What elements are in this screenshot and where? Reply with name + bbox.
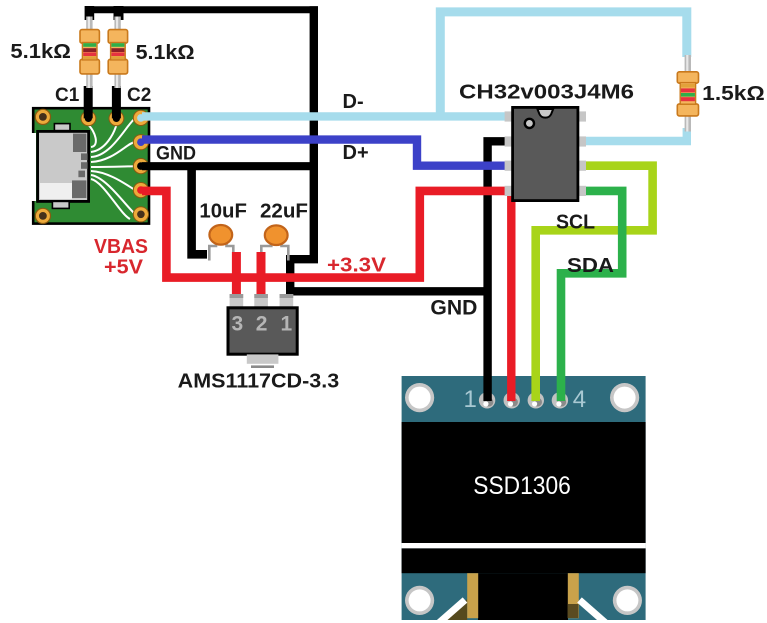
wire: +5V from USB pad to regulator input: [142, 191, 507, 278]
svg-text:C1: C1: [55, 85, 80, 106]
flex tan strip right: [568, 573, 579, 618]
pin 2 stub: [505, 136, 514, 146]
mounting hole bottom-right: [613, 586, 642, 615]
mounting hole bottom-left: [35, 208, 50, 223]
package body: [513, 107, 578, 200]
board corner cut right: [580, 600, 609, 623]
pad GND: [133, 159, 148, 174]
mounting hole top-left: [35, 109, 50, 124]
svg-text:+3.3V: +3.3V: [327, 255, 387, 277]
flex dark corner right: [568, 604, 579, 618]
PCB cutout left of connector: [27, 133, 36, 201]
board corner cut left: [437, 600, 466, 623]
wire: GND from USB pad: [142, 162, 317, 170]
wire: D+ from USB to U1 pin 3: [142, 140, 508, 166]
wire: R1 stub to rail: [85, 6, 95, 20]
svg-text:5.1kΩ: 5.1kΩ: [10, 41, 71, 63]
svg-text:VBAS: VBAS: [94, 236, 148, 258]
pin 1 hole: [479, 392, 495, 408]
capacitor C4 22uF: [261, 225, 288, 260]
pin 6 stub: [577, 161, 586, 171]
pad C2: [109, 111, 124, 126]
wire: R3 bottom back to U1 pin 7: [584, 128, 687, 141]
PCB substrate: [33, 108, 149, 223]
wire: GND branch to capacitor C3: [192, 166, 207, 254]
package body: [228, 308, 297, 354]
pad unused: [133, 207, 148, 222]
pin 1 notch: [537, 109, 553, 118]
flex dark corner left: [444, 599, 467, 620]
connector tab bottom: [52, 201, 69, 208]
wire: +3.3V down to OLED pin 2: [507, 191, 515, 401]
pin 4 hole: [552, 392, 568, 408]
wire: SCL from U1 pin 6 to OLED pin 3: [536, 166, 653, 401]
pad D+: [133, 135, 148, 150]
svg-text:GND: GND: [156, 143, 196, 165]
pin 4 stub: [505, 186, 514, 196]
svg-text:5.1kΩ: 5.1kΩ: [136, 42, 195, 64]
mounting hole top-right: [610, 383, 639, 412]
pad VBUS: [133, 183, 148, 198]
micro-USB connector shell: [38, 131, 89, 201]
flex cable area: [478, 573, 568, 620]
wire: D- branch up over to R3: [440, 12, 687, 117]
svg-text:D+: D+: [343, 142, 369, 164]
pad D-: [133, 110, 148, 125]
pin 1 dot: [525, 119, 534, 128]
pin 5 stub: [577, 186, 586, 196]
svg-text:CH32v003J4M6: CH32v003J4M6: [459, 82, 634, 104]
resistor R2 5.1k: [108, 17, 127, 89]
resistor R3 1.5k: [677, 55, 698, 132]
pin 3 hole: [528, 392, 544, 408]
regulator U2 AMS1117: [228, 294, 297, 368]
svg-text:1: 1: [281, 313, 293, 336]
PCB traces: [88, 118, 135, 219]
svg-text:SCL: SCL: [556, 212, 595, 234]
SSD1306 OLED module DS1: [402, 376, 646, 623]
svg-text:10uF: 10uF: [199, 200, 247, 222]
OLED display glass: [402, 422, 646, 543]
USB micro breakout board J1: [27, 108, 149, 223]
svg-text:1.5kΩ: 1.5kΩ: [702, 83, 765, 105]
wire: C2 resistor lead to pad: [112, 86, 121, 118]
capacitor C3 10uF: [209, 225, 233, 261]
pin 1 stub: [505, 111, 514, 121]
svg-text:22uF: 22uF: [260, 200, 308, 222]
display lower strip: [402, 548, 646, 573]
pad C1: [81, 111, 96, 126]
wire: D- from USB to U1 pin 1: [142, 112, 508, 120]
svg-text:GND: GND: [430, 297, 477, 320]
glass gap: [402, 543, 646, 548]
wire: regulator U2 pin 2 lead: [257, 252, 266, 297]
svg-text:1: 1: [464, 386, 477, 413]
svg-text:SDA: SDA: [567, 255, 614, 277]
wire: GND to U1 pin 2 and OLED pin 1: [488, 141, 507, 401]
resistor R1 5.1k: [80, 17, 99, 89]
svg-text:D-: D-: [343, 91, 364, 113]
svg-text:SSD1306: SSD1306: [473, 472, 571, 500]
mounting hole top-left: [405, 383, 434, 412]
wire: GND top rail from resistors: [85, 6, 318, 13]
svg-text:4: 4: [573, 386, 586, 413]
wire: regulator U2 pin 3 lead: [232, 252, 241, 297]
wire: SDA from U1 pin 5 to OLED pin 4: [561, 191, 622, 401]
MCU U1 CH32V003J4M6: [505, 107, 586, 200]
pin 1 stub: [280, 294, 294, 309]
mounting hole bottom-left: [405, 586, 434, 615]
pin 2 hole: [504, 392, 520, 408]
svg-text:+5V: +5V: [104, 257, 144, 279]
wire: R2 stub to rail: [114, 6, 124, 20]
pin 8 stub: [577, 111, 586, 121]
pin 3 stub: [505, 161, 514, 171]
package tab: [247, 354, 279, 363]
OLED PCB: [402, 376, 646, 620]
pin 3 stub: [230, 294, 244, 309]
wire: GND vertical down to GND net and capacitor C4: [290, 6, 487, 291]
svg-text:3: 3: [232, 313, 244, 336]
svg-text:C2: C2: [127, 85, 151, 106]
wire: C1 resistor lead to pad: [84, 86, 93, 118]
pin 7 stub: [577, 136, 586, 146]
flex tan strip left: [467, 573, 478, 618]
svg-text:AMS1117CD-3.3: AMS1117CD-3.3: [178, 371, 340, 393]
svg-text:2: 2: [256, 313, 268, 336]
pin 2 stub: [254, 294, 268, 309]
connector tab top: [54, 124, 70, 131]
